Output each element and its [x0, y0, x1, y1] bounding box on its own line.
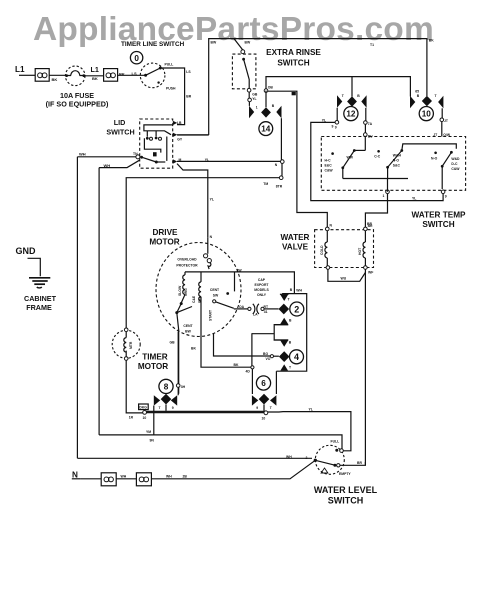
svg-text:N: N: [72, 471, 78, 480]
lid switch box: [140, 119, 173, 168]
connector CB2: [104, 69, 118, 82]
svg-text:65: 65: [415, 89, 419, 93]
svg-text:31: 31: [264, 310, 268, 314]
label CAP EXPORT MODELS ONLY: [254, 278, 269, 297]
svg-text:TM: TM: [263, 182, 268, 186]
svg-text:BR: BR: [368, 224, 373, 228]
svg-text:H-C: H-C: [325, 159, 332, 163]
svg-text:START: START: [209, 309, 213, 321]
svg-text:BR: BR: [357, 461, 362, 465]
wire N to water level pivot: [151, 460, 315, 479]
wire WH to lid TN: [77, 152, 138, 157]
cent sw: [210, 272, 235, 308]
wire outer left vertical 1: [76, 157, 78, 459]
svg-text:WATER TEMP: WATER TEMP: [412, 211, 467, 220]
svg-text:HOT: HOT: [358, 247, 362, 255]
svg-text:BK: BK: [191, 347, 196, 351]
wire WH to water level pivot: [77, 455, 312, 460]
diamond 10 group: [410, 89, 443, 108]
cam 8: [159, 379, 173, 393]
cam 4: [290, 350, 304, 364]
wire empty to valve line: [340, 461, 365, 465]
node GND: [16, 246, 37, 256]
svg-text:GB: GB: [170, 341, 176, 345]
svg-text:N-O: N-O: [431, 157, 438, 161]
wire start to cam6: [191, 297, 254, 374]
diamond 14 group: [249, 91, 282, 119]
svg-text:BK: BK: [92, 76, 98, 81]
bus2: extra rinse row: [264, 77, 410, 97]
label TIMER MOTOR: [138, 353, 168, 372]
svg-text:7A: 7A: [368, 122, 373, 126]
diamond 8 group: [154, 332, 178, 411]
ground symbol: [29, 278, 50, 288]
node L1: [15, 65, 25, 74]
wire 8 left wing down: [153, 406, 155, 435]
valve hot solenoid: [358, 231, 365, 266]
WTS pole 2: [374, 149, 403, 178]
svg-text:BW: BW: [185, 330, 191, 334]
svg-text:WH: WH: [286, 455, 292, 459]
svg-text:SWITCH: SWITCH: [106, 128, 134, 137]
svg-text:S&C: S&C: [393, 164, 401, 168]
svg-text:EMPTY: EMPTY: [339, 472, 351, 476]
valve cold bottom circle: [326, 266, 330, 270]
svg-text:DRIVE: DRIVE: [152, 228, 178, 237]
svg-text:SWITCH: SWITCH: [422, 220, 454, 229]
svg-text:BW: BW: [245, 41, 251, 45]
fuse F1 10A: [65, 66, 85, 86]
svg-text:DKG: DKG: [139, 406, 147, 410]
diamond 12 group: [337, 77, 367, 108]
cam 6: [256, 376, 270, 390]
node N neutral: [72, 471, 81, 480]
svg-text:BK: BK: [119, 72, 125, 77]
motor internal bus: [185, 268, 294, 293]
svg-text:GB: GB: [252, 93, 258, 97]
svg-text:BK: BK: [234, 363, 239, 367]
svg-text:BR: BR: [186, 94, 191, 98]
plug 2 top wing: [280, 288, 303, 302]
svg-text:ONLY: ONLY: [257, 293, 267, 297]
wire BK: [49, 75, 65, 82]
valve hot bottom circle: [364, 266, 374, 275]
svg-text:10: 10: [262, 417, 266, 421]
svg-text:12: 12: [346, 110, 356, 119]
svg-text:LA: LA: [253, 313, 258, 317]
timer cam 10: [419, 107, 433, 121]
label DRIVE MOTOR: [149, 228, 179, 246]
svg-text:MODELS: MODELS: [254, 288, 269, 292]
slow winding: [178, 272, 188, 305]
svg-text:WF: WF: [368, 271, 373, 275]
svg-text:MOTOR: MOTOR: [149, 237, 179, 246]
svg-text:10: 10: [422, 110, 432, 119]
wire cold valve bottom join: [328, 269, 366, 281]
svg-text:VO: VO: [266, 357, 271, 361]
svg-text:PULL: PULL: [165, 62, 174, 66]
label WATER VALVE: [281, 233, 310, 251]
cam 2: [290, 302, 304, 316]
valve terminal N: [326, 224, 333, 231]
svg-text:WH: WH: [296, 289, 302, 293]
connector CB3: [101, 473, 116, 486]
svg-text:OB: OB: [268, 86, 274, 90]
wire WTS I to hot valve: [365, 179, 387, 228]
svg-text:C&W: C&W: [451, 167, 460, 171]
label L1 (second): [91, 65, 99, 81]
svg-text:D-C: D-C: [451, 162, 458, 166]
svg-text:L1: L1: [15, 65, 25, 74]
diamond 6 group: [252, 394, 277, 411]
thick bus DKG: [129, 404, 268, 421]
drive motor circle: [156, 243, 241, 337]
wire 14 right wing down: [263, 118, 284, 188]
svg-text:WATER LEVEL: WATER LEVEL: [314, 485, 378, 495]
svg-text:N-O: N-O: [393, 159, 400, 163]
label EXTRA RINSE SWITCH: [266, 48, 321, 68]
svg-text:FRAME: FRAME: [26, 303, 52, 312]
svg-text:WATER: WATER: [281, 233, 310, 242]
svg-text:L1: L1: [91, 65, 99, 74]
svg-text:LB: LB: [177, 121, 182, 125]
svg-text:YL: YL: [309, 408, 313, 412]
lid terminal T2 GY: [173, 133, 209, 142]
timer line switch S1: [140, 62, 176, 90]
wire 10 right wing to JT: [433, 108, 451, 137]
timer cam 12: [344, 107, 358, 121]
WTS pole 3: [431, 151, 460, 189]
wire N WH: [116, 475, 136, 479]
diamond 2: [279, 304, 290, 315]
svg-text:BK: BK: [429, 39, 434, 43]
plug 4 bottom wing: [280, 364, 292, 370]
svg-text:WH: WH: [166, 475, 172, 479]
svg-text:ORG: ORG: [184, 288, 188, 296]
svg-text:YL: YL: [322, 119, 326, 123]
WTS terminal 9: [441, 190, 446, 199]
svg-text:2: 2: [294, 304, 299, 314]
svg-text:C&E: C&E: [192, 295, 196, 303]
svg-text:FULL: FULL: [331, 440, 340, 444]
svg-text:WH: WH: [121, 475, 127, 479]
svg-text:BW: BW: [211, 41, 217, 45]
svg-text:W&D: W&D: [451, 157, 460, 161]
WTS jumper bar: [343, 178, 408, 180]
bus1 top: lid T2 up and across to diamond 10: [209, 39, 435, 136]
wire 12 right wing to BU: [364, 108, 374, 151]
svg-text:BO: BO: [263, 352, 268, 356]
label WATER TEMP SWITCH: [412, 211, 467, 230]
svg-text:E&C: E&C: [325, 164, 333, 168]
svg-text:9: 9: [172, 406, 174, 410]
svg-text:YL: YL: [412, 197, 416, 201]
capacitor C1: [234, 304, 279, 317]
svg-text:3W: 3W: [237, 268, 243, 272]
svg-text:YM: YM: [146, 430, 151, 434]
svg-text:LID: LID: [114, 118, 126, 127]
wire lid T2: [177, 134, 209, 136]
wire box to diamond 6 right: [275, 371, 277, 394]
water valve box: [315, 230, 374, 268]
staircase wire 2-4: [252, 325, 274, 339]
plug box 2/4: [276, 294, 306, 372]
svg-text:TIMER: TIMER: [142, 353, 168, 362]
svg-text:8TR: 8TR: [276, 184, 283, 188]
extra rinse switch S2: [232, 50, 258, 102]
wire YL bus to water level full: [268, 408, 351, 450]
svg-text:OVERLOAD: OVERLOAD: [177, 258, 197, 262]
svg-text:14: 14: [261, 125, 271, 134]
wire lid M to node N: [177, 158, 281, 162]
wire GND: [28, 258, 41, 276]
svg-text:EXTRA RINSE: EXTRA RINSE: [266, 48, 321, 57]
lid switch interior: [136, 125, 173, 164]
svg-text:8: 8: [164, 383, 169, 392]
label LID SWITCH: [106, 118, 134, 137]
lid terminal M: [173, 158, 182, 164]
plug 4 top wing: [274, 339, 292, 346]
svg-text:9: 9: [335, 125, 337, 129]
label 10A FUSE: [46, 91, 109, 109]
svg-text:YL: YL: [252, 97, 256, 101]
wire box to diamond 6 left: [251, 333, 254, 394]
start winding: [192, 272, 213, 321]
svg-text:CENT: CENT: [183, 324, 193, 328]
svg-text:YL: YL: [210, 198, 214, 202]
svg-text:CAP: CAP: [258, 278, 266, 282]
svg-text:OA: OA: [239, 305, 245, 309]
svg-text:TIMER LINE SWITCH: TIMER LINE SWITCH: [121, 41, 185, 48]
svg-text:TN: TN: [133, 152, 138, 156]
svg-text:1: 1: [383, 194, 385, 198]
svg-text:SWITCH: SWITCH: [277, 59, 309, 68]
svg-text:BK: BK: [52, 77, 58, 82]
label WATER LEVEL SWITCH: [314, 485, 378, 505]
svg-text:COLD: COLD: [320, 245, 324, 255]
svg-text:MOTOR: MOTOR: [138, 362, 168, 371]
valve cold solenoid: [320, 231, 327, 266]
wire A: OB to cold valve: [268, 91, 328, 227]
svg-text:GY: GY: [177, 138, 183, 142]
timer cam 14: [259, 122, 273, 136]
wire hot valve to water level: [364, 269, 366, 464]
svg-text:LS: LS: [132, 71, 137, 76]
svg-text:9N: 9N: [150, 439, 155, 443]
node 3H: [176, 384, 185, 389]
wire LS: switch to lid switch T1: [160, 68, 191, 125]
svg-text:1R: 1R: [129, 416, 134, 420]
svg-text:2B: 2B: [183, 475, 188, 479]
svg-text:WH: WH: [79, 152, 86, 157]
water temp switch box: [321, 137, 465, 191]
bus TM y177.7: [126, 178, 279, 328]
water level switch: [314, 440, 352, 477]
svg-text:9: 9: [332, 125, 334, 129]
svg-text:C-C: C-C: [374, 155, 381, 159]
svg-text:YL: YL: [205, 158, 209, 162]
svg-text:10: 10: [143, 416, 147, 420]
svg-text:0: 0: [134, 54, 139, 63]
svg-text:C&W: C&W: [325, 169, 334, 173]
wire WH diagonal to lid bottom: [99, 160, 139, 168]
wire lid M branch to motor: [177, 164, 214, 239]
svg-text:W&H: W&H: [393, 154, 402, 158]
wire B: WTS 9 to cam12 YL: [311, 119, 443, 201]
svg-text:EXPORT: EXPORT: [255, 283, 270, 287]
timer motor: [112, 328, 140, 360]
svg-text:WU: WU: [341, 277, 347, 281]
svg-text:SLOW: SLOW: [178, 285, 182, 296]
WTS step wire: [402, 144, 457, 151]
wire TM to bus DKG: [126, 360, 143, 413]
label CABINET FRAME: [24, 294, 57, 312]
svg-text:9: 9: [256, 406, 258, 410]
svg-text:2: 2: [306, 456, 308, 460]
svg-text:4: 4: [294, 352, 299, 362]
watermark: [33, 11, 434, 48]
wire N line: [81, 478, 101, 480]
svg-text:CABINET: CABINET: [24, 294, 57, 303]
bus YM to water level: [99, 430, 342, 449]
svg-text:(IF SO EQUIPPED): (IF SO EQUIPPED): [46, 100, 109, 109]
wire CB2 to timer line switch: [118, 71, 146, 77]
wire fuse to CB2: [85, 75, 104, 77]
svg-text:WH: WH: [104, 163, 111, 168]
svg-text:MTR: MTR: [129, 341, 133, 349]
svg-text:T1: T1: [370, 43, 374, 47]
wire L1 feed: [19, 74, 35, 76]
svg-text:9: 9: [445, 195, 447, 199]
svg-text:PUSH: PUSH: [166, 86, 176, 90]
svg-text:PROTECTOR: PROTECTOR: [176, 264, 198, 268]
overload protector: [176, 237, 211, 269]
wire outer left vertical 2: [98, 168, 100, 435]
svg-text:SWITCH: SWITCH: [328, 495, 364, 505]
plug 2 bottom wing: [274, 318, 292, 326]
wire start to cam4: [214, 334, 279, 361]
WTS pole 1: [325, 149, 366, 178]
connector CB4: [136, 473, 151, 486]
timer cam 0: [130, 52, 142, 64]
svg-text:4D: 4D: [246, 370, 251, 374]
diamond 4: [279, 351, 290, 362]
wire 12 left wing to YL: [335, 108, 339, 130]
svg-text:WW: WW: [347, 156, 354, 160]
cent bw: [170, 304, 194, 394]
label TIMER LINE SWITCH: [121, 41, 185, 48]
svg-text:CENT: CENT: [210, 288, 220, 292]
svg-text:LS: LS: [186, 70, 191, 74]
svg-text:1: 1: [256, 106, 258, 110]
svg-text:3H: 3H: [181, 385, 186, 389]
valve terminal BR: [364, 224, 373, 231]
svg-text:6: 6: [261, 379, 266, 388]
connector CB1: [35, 69, 49, 82]
wire bus1 tap to extra rinse: [234, 39, 251, 50]
svg-text:SW: SW: [213, 294, 219, 298]
svg-text:GND: GND: [16, 246, 37, 256]
WTS terminal I: [383, 190, 390, 198]
svg-text:VALVE: VALVE: [282, 242, 309, 251]
lid terminal T1 LB: [173, 121, 182, 125]
